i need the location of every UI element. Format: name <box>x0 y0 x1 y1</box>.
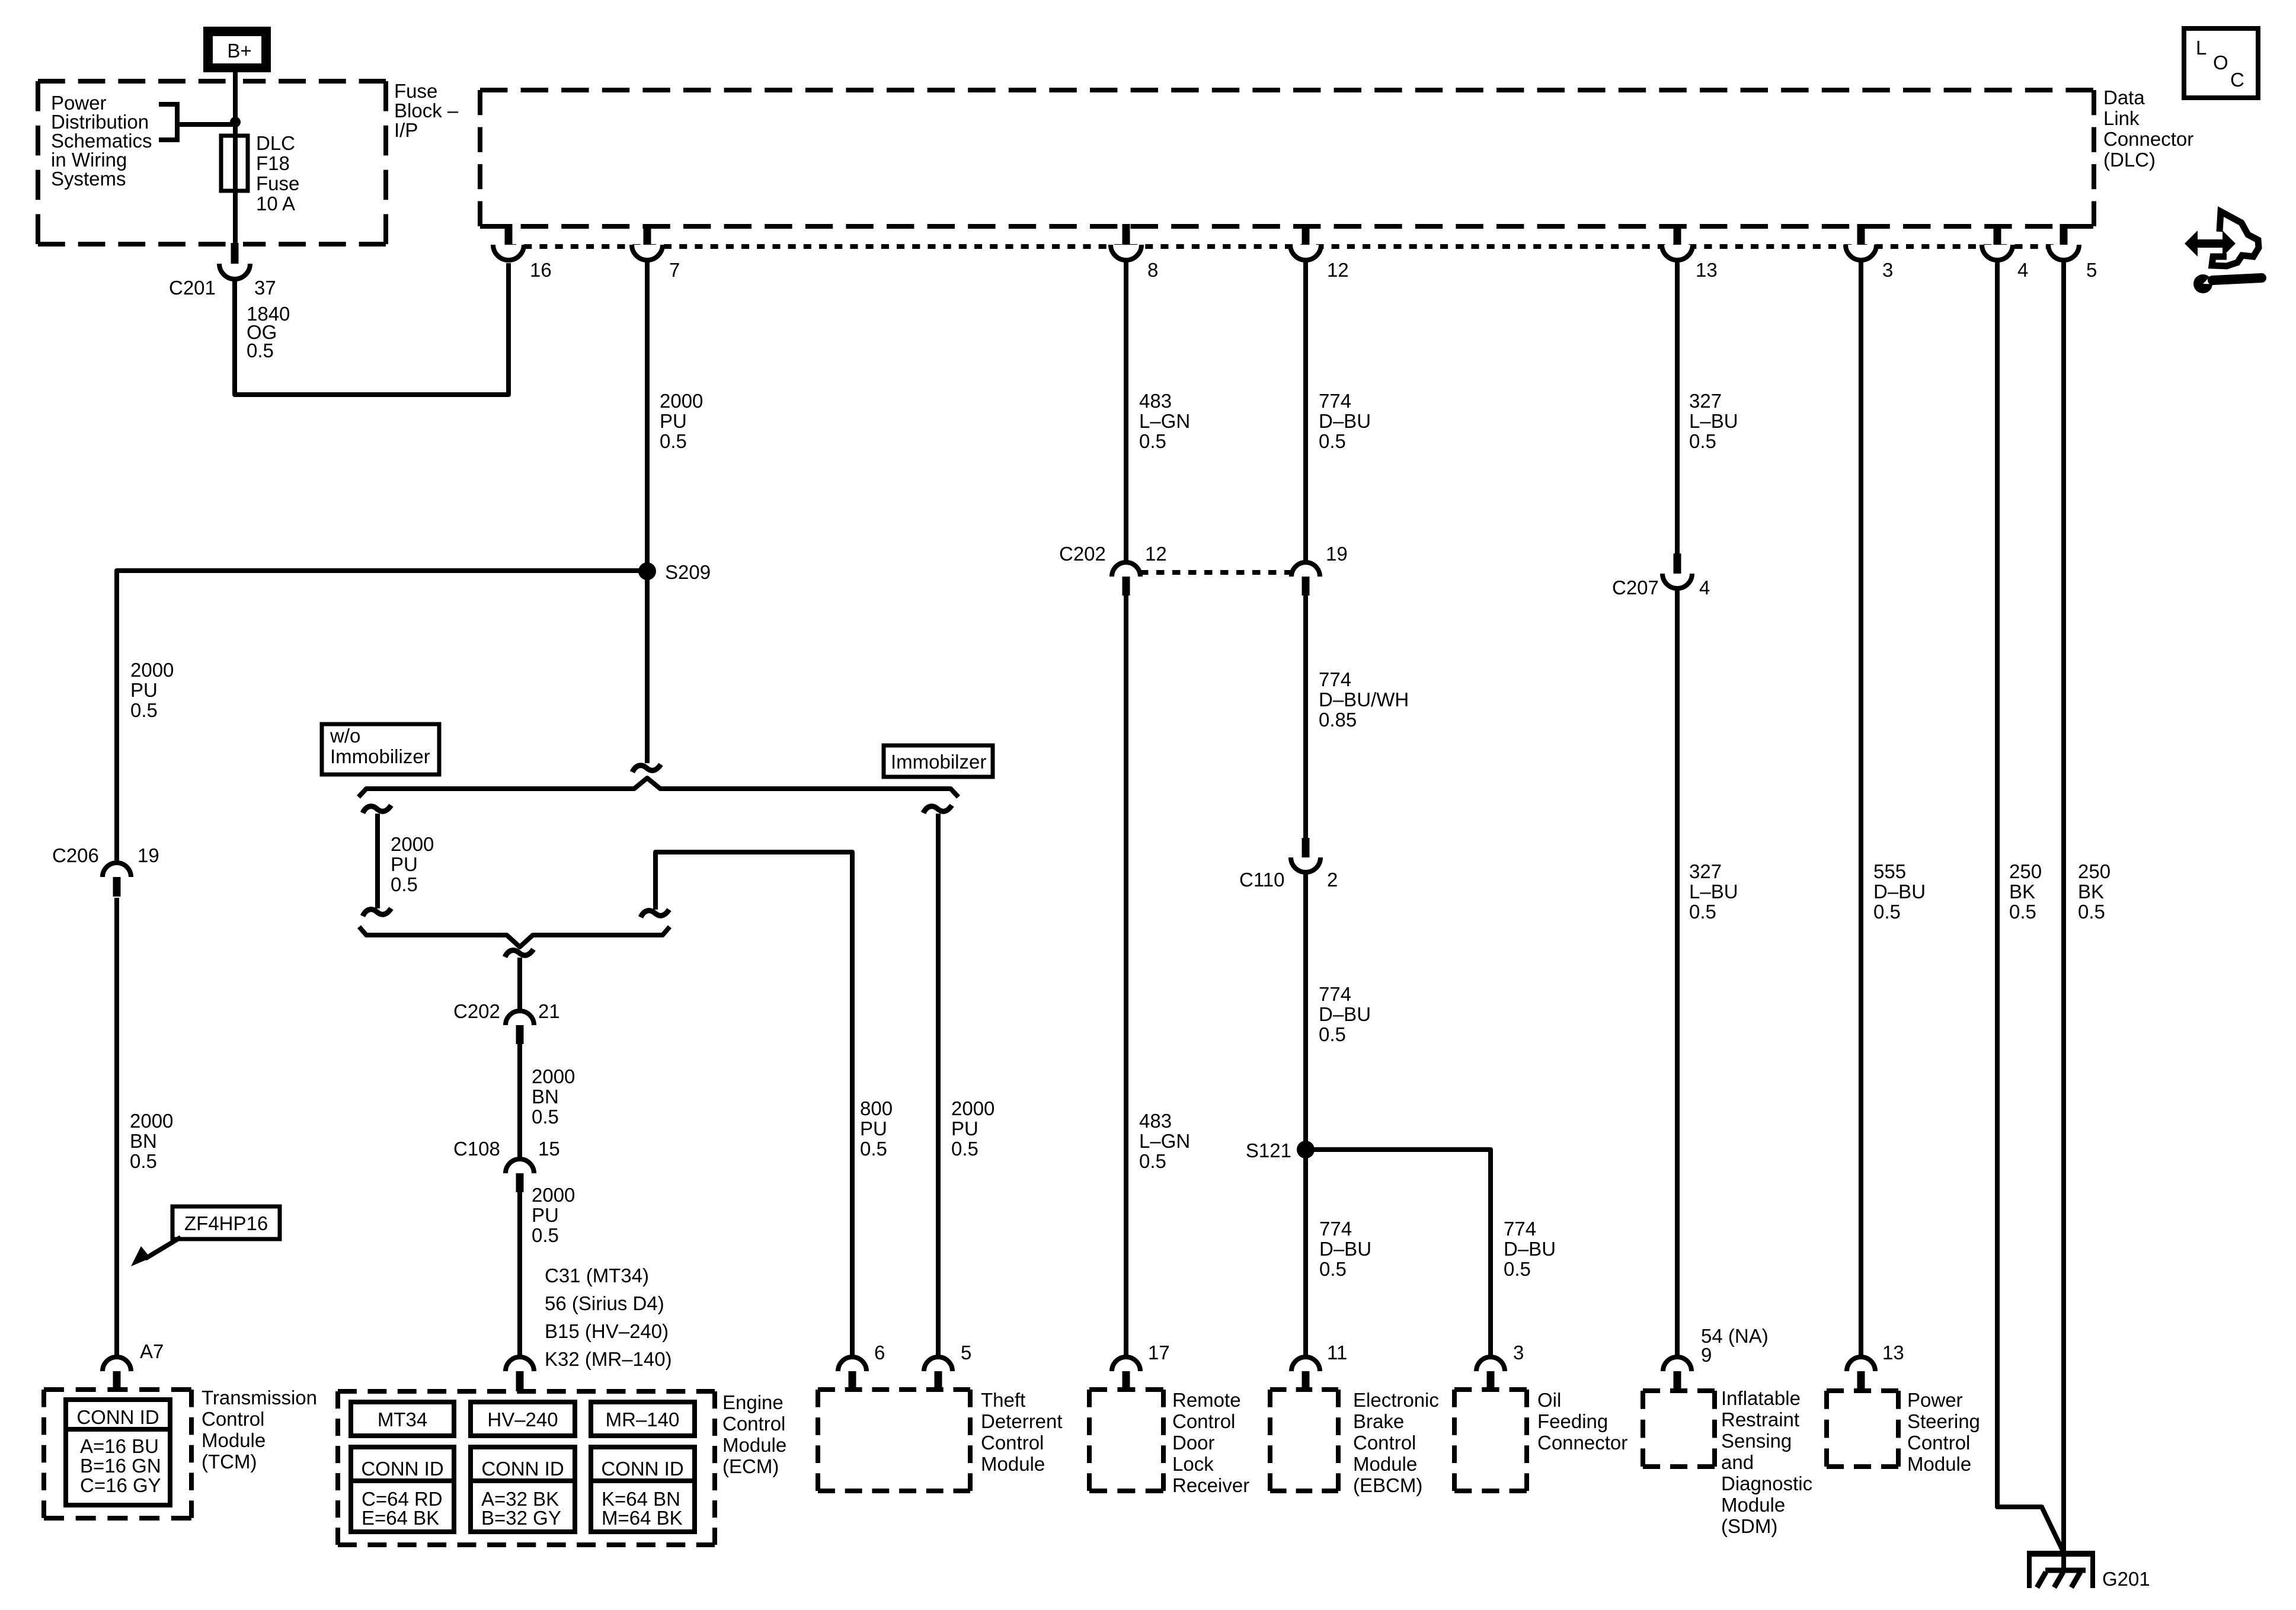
svg-text:L: L <box>2196 37 2207 59</box>
Oil Feeding Connector dashed box <box>1454 1390 1527 1491</box>
label Transmission Control Module (TCM) <box>202 1387 317 1473</box>
wire DLC pin 13 to C207 <box>1675 261 1680 555</box>
label Engine Control Module (ECM) <box>722 1391 786 1477</box>
svg-text:Fuse: Fuse <box>256 172 299 194</box>
pin number 16 <box>530 259 552 281</box>
Remote Control Door Lock Receiver dashed box <box>1089 1390 1163 1491</box>
wire DLC pin 8 to C202-12 <box>1124 261 1128 563</box>
svg-text:2000: 2000 <box>130 1110 173 1132</box>
svg-text:w/o: w/o <box>330 725 360 747</box>
connector C202 pin 21 <box>506 1011 534 1044</box>
svg-text:Diagnostic: Diagnostic <box>1721 1473 1812 1494</box>
ground G201 <box>2027 1551 2095 1588</box>
svg-text:K32 (MR–140): K32 (MR–140) <box>545 1348 672 1370</box>
svg-text:Control: Control <box>722 1413 785 1435</box>
svg-text:2000: 2000 <box>130 659 174 681</box>
wire label 250 BK 0.5 (pin 5) <box>2078 860 2110 923</box>
Inflatable Restraint SDM dashed box <box>1643 1391 1715 1467</box>
svg-text:12: 12 <box>1327 259 1349 281</box>
svg-text:0.5: 0.5 <box>130 699 158 721</box>
label box w/o Immobilizer <box>322 724 439 774</box>
svg-text:Data: Data <box>2103 87 2145 108</box>
svg-text:Restraint: Restraint <box>1721 1409 1799 1430</box>
connector C202 pin 19 <box>1291 562 1320 596</box>
wire label 774 D-BU 0.5 (upper) <box>1319 390 1371 452</box>
svg-text:11: 11 <box>1327 1342 1347 1363</box>
svg-text:6: 6 <box>874 1342 885 1363</box>
wire label 774 D-BU 0.5 (oil) <box>1504 1218 1556 1280</box>
svg-text:774: 774 <box>1319 1218 1352 1240</box>
svg-text:Transmission: Transmission <box>202 1387 317 1409</box>
break below lower brace center <box>505 949 533 957</box>
svg-text:13: 13 <box>1882 1342 1904 1363</box>
svg-text:2000: 2000 <box>532 1184 575 1206</box>
svg-text:ZF4HP16: ZF4HP16 <box>184 1212 268 1234</box>
svg-text:0.5: 0.5 <box>1319 1023 1346 1045</box>
label Power Distribution Schematics in Wiring Systems <box>51 92 152 190</box>
ECM HV-240 box <box>471 1402 575 1436</box>
DLC connector face fine-dashed row <box>509 244 2065 249</box>
ECM CONN ID table MT34 <box>351 1447 454 1532</box>
connector C201 (stub and cup) <box>219 243 250 279</box>
svg-text:BK: BK <box>2078 881 2104 902</box>
wire label 555 D-BU 0.5 <box>1873 860 1926 923</box>
label pin 13 <box>1882 1342 1904 1363</box>
svg-text:8: 8 <box>1147 259 1158 281</box>
SDM connector pin 9 <box>1663 1357 1691 1391</box>
svg-text:(TCM): (TCM) <box>202 1451 257 1473</box>
label C201 pin 37 <box>169 277 276 299</box>
svg-text:2: 2 <box>1327 869 1338 891</box>
wire label 327 L-BU 0.5 (lower) <box>1689 860 1738 923</box>
wire label 2000 PU 0.5 (jumper) <box>391 833 434 895</box>
wire DLC pin 4 to G201 <box>1997 261 2062 1550</box>
splice S209 <box>638 562 656 580</box>
svg-text:774: 774 <box>1319 983 1351 1005</box>
w/o immobilizer jumper: break, wire, break <box>363 805 391 916</box>
wire label 2000 PU 0.5 (to ECM) <box>532 1184 575 1246</box>
svg-text:D–BU: D–BU <box>1873 881 1926 902</box>
pin number 8 <box>1147 259 1158 281</box>
svg-text:Door: Door <box>1172 1432 1215 1454</box>
svg-text:PU: PU <box>860 1118 887 1140</box>
svg-text:7: 7 <box>669 259 680 281</box>
wire lower brace right end to theft deterrent pin 6 <box>655 852 852 1358</box>
wire label 774 D-BU 0.5 (EBCM) <box>1319 1218 1371 1280</box>
svg-text:10 A: 10 A <box>256 193 295 215</box>
connector C206 pin 19 <box>103 863 131 897</box>
theft deterrent connector pin 5 <box>924 1357 952 1391</box>
pin number 3 <box>1882 259 1893 281</box>
label Data Link Connector (DLC) <box>2103 87 2193 171</box>
TCM connector pin A7 <box>103 1357 131 1391</box>
wire DLC pin 3 to power steering pin 13 <box>1859 261 1863 1358</box>
label pin 17 <box>1148 1342 1170 1363</box>
Transmission Control Module dashed box <box>44 1390 191 1518</box>
label pin 19 <box>1326 543 1348 565</box>
Power Steering Control Module dashed box <box>1827 1391 1898 1467</box>
C202 bulkhead fine-dashed line <box>1140 570 1293 575</box>
ECM MT34 box <box>351 1402 454 1436</box>
pin number 7 <box>669 259 680 281</box>
svg-text:CONN ID: CONN ID <box>76 1406 159 1428</box>
data link communication icon (arrow, connector, wrench) <box>2185 212 2262 293</box>
svg-text:C: C <box>2230 69 2244 91</box>
svg-text:774: 774 <box>1504 1218 1536 1240</box>
svg-text:Power: Power <box>1907 1389 1963 1411</box>
svg-text:PU: PU <box>391 853 418 875</box>
connector C202 pin 12 <box>1112 562 1140 596</box>
svg-text:BK: BK <box>2009 881 2035 902</box>
svg-text:CONN ID: CONN ID <box>481 1458 564 1480</box>
svg-text:PU: PU <box>951 1118 978 1140</box>
svg-text:D–BU: D–BU <box>1319 1238 1371 1260</box>
wire break at option split <box>632 764 661 772</box>
label Oil Feeding Connector <box>1537 1389 1627 1454</box>
wire C206 to TCM pin A7 <box>114 898 119 1358</box>
fuse DLC F18 10A <box>221 136 248 191</box>
svg-text:C31 (MT34): C31 (MT34) <box>545 1265 649 1286</box>
svg-text:0.5: 0.5 <box>247 340 274 361</box>
svg-text:12: 12 <box>1145 543 1167 565</box>
label pin A7 <box>140 1340 164 1362</box>
option tag ZF4HP16 with arrow <box>131 1206 280 1266</box>
ECM connector <box>506 1357 534 1391</box>
svg-text:Oil: Oil <box>1537 1389 1561 1411</box>
label C110 2 <box>1239 869 1338 891</box>
DLC pin 5 terminal <box>2048 224 2079 260</box>
svg-text:0.5: 0.5 <box>391 873 418 895</box>
EBCM connector pin 11 <box>1291 1357 1320 1391</box>
svg-text:Connector: Connector <box>2103 128 2193 150</box>
label C202 12 <box>1059 543 1167 565</box>
svg-text:MR–140: MR–140 <box>606 1409 680 1430</box>
svg-text:B+: B+ <box>227 40 251 62</box>
svg-text:C202: C202 <box>1059 543 1106 565</box>
svg-text:Module: Module <box>202 1429 266 1451</box>
LOC reference icon <box>2184 28 2258 98</box>
svg-text:0.5: 0.5 <box>1689 430 1716 452</box>
svg-text:0.5: 0.5 <box>130 1150 157 1172</box>
label G201 <box>2102 1568 2150 1590</box>
svg-text:2000: 2000 <box>660 390 703 412</box>
svg-text:D–BU/WH: D–BU/WH <box>1319 689 1409 710</box>
wire immobilzer option to theft deterrent pin 5 <box>936 814 941 1358</box>
svg-text:M=64 BK: M=64 BK <box>602 1507 683 1529</box>
wire C110 to EBCM pin 11 <box>1303 870 1308 1358</box>
svg-text:S209: S209 <box>665 561 711 583</box>
pin number 12 <box>1327 259 1349 281</box>
svg-text:Steering: Steering <box>1907 1410 1980 1432</box>
svg-text:16: 16 <box>530 259 552 281</box>
svg-text:Block –: Block – <box>394 100 459 121</box>
DLC pin 13 terminal <box>1662 224 1693 260</box>
svg-text:Sensing: Sensing <box>1721 1430 1792 1452</box>
label Power Steering Control Module <box>1907 1389 1980 1475</box>
svg-text:Lock: Lock <box>1172 1453 1214 1475</box>
wire C202-21 to C108 <box>517 1044 522 1159</box>
svg-text:Inflatable: Inflatable <box>1721 1387 1801 1409</box>
svg-text:CONN ID: CONN ID <box>601 1458 683 1480</box>
svg-text:Electronic: Electronic <box>1353 1389 1439 1411</box>
svg-text:2000: 2000 <box>532 1065 575 1087</box>
svg-text:483: 483 <box>1139 390 1172 412</box>
svg-text:15: 15 <box>538 1138 560 1160</box>
svg-text:Module: Module <box>1353 1453 1417 1475</box>
svg-text:PU: PU <box>130 679 158 701</box>
svg-text:0.5: 0.5 <box>1873 901 1901 923</box>
svg-text:HV–240: HV–240 <box>487 1409 558 1430</box>
svg-text:C110: C110 <box>1239 869 1284 891</box>
wire label 327 L-BU 0.5 (upper) <box>1689 390 1738 452</box>
wire label 483 L-GN 0.5 (lower) <box>1139 1110 1190 1172</box>
svg-text:483: 483 <box>1139 1110 1172 1132</box>
Data Link Connector (DLC) dashed box <box>480 90 2094 226</box>
wire label 250 BK 0.5 (pin 4) <box>2009 860 2042 923</box>
svg-text:D–BU: D–BU <box>1319 1003 1371 1025</box>
gap in box edge for B+ wire <box>228 77 243 248</box>
svg-text:21: 21 <box>538 1000 560 1022</box>
svg-text:B15 (HV–240): B15 (HV–240) <box>545 1320 669 1342</box>
svg-text:3: 3 <box>1513 1342 1524 1363</box>
wire label 2000 PU 0.5 (pin 7) <box>660 390 703 452</box>
svg-text:B=32 GY: B=32 GY <box>481 1507 561 1529</box>
svg-text:Immobilizer: Immobilizer <box>330 745 430 767</box>
svg-text:0.5: 0.5 <box>1689 901 1716 923</box>
svg-text:A7: A7 <box>140 1340 164 1362</box>
remote door lock receiver connector pin 17 <box>1112 1357 1140 1391</box>
label Theft Deterrent Control Module <box>981 1389 1063 1475</box>
wire C201 to DLC pin 16 <box>235 263 509 395</box>
wire DLC pin 12 to C202-19 <box>1303 261 1308 563</box>
svg-text:A=16 BU: A=16 BU <box>80 1435 159 1457</box>
svg-text:Control: Control <box>1353 1432 1416 1454</box>
svg-text:2000: 2000 <box>391 833 434 855</box>
svg-text:19: 19 <box>1326 543 1348 565</box>
DLC pin 16 terminal <box>493 224 524 260</box>
Electronic Brake Control Module dashed box <box>1270 1390 1338 1491</box>
svg-text:4: 4 <box>1699 577 1710 598</box>
wire label 774 D-BU/WH 0.85 <box>1319 668 1409 731</box>
svg-text:O: O <box>2213 52 2228 73</box>
svg-text:DLC: DLC <box>256 132 295 154</box>
label Fuse Block - I/P <box>394 80 459 141</box>
label pin 54 (NA) / 9 <box>1701 1325 1769 1366</box>
splice S121 <box>1297 1141 1315 1158</box>
svg-text:0.5: 0.5 <box>2009 901 2036 923</box>
wire B+ down through fuse to C201 <box>233 72 238 244</box>
label C207 4 <box>1612 577 1710 598</box>
svg-text:G201: G201 <box>2102 1568 2150 1590</box>
label S121 <box>1246 1140 1291 1161</box>
svg-text:Feeding: Feeding <box>1537 1410 1608 1432</box>
wire label 774 D-BU 0.5 (mid) <box>1319 983 1371 1045</box>
wire S209 to left riser <box>117 571 647 860</box>
svg-text:56 (Sirius D4): 56 (Sirius D4) <box>545 1292 664 1314</box>
wire C202-12 to remote receiver pin 17 <box>1124 596 1128 1358</box>
wire DLC pin 5 to G201 <box>2061 261 2066 1569</box>
label C202 21 <box>453 1000 560 1022</box>
label fuse DLC F18 Fuse 10 A <box>256 132 299 215</box>
svg-text:(EBCM): (EBCM) <box>1353 1474 1422 1496</box>
DLC pin 4 terminal <box>1982 224 2013 260</box>
label S209 <box>665 561 711 583</box>
label C108 15 <box>453 1138 560 1160</box>
svg-text:0.5: 0.5 <box>1319 430 1346 452</box>
svg-text:BN: BN <box>532 1086 559 1108</box>
option brace upper (w/o Immobilizer vs Immobilzer) <box>359 778 958 797</box>
svg-text:Theft: Theft <box>981 1389 1025 1411</box>
wire DLC pin 7 to S209 <box>645 261 650 571</box>
wire label 2000 PU 0.5 (left branch) <box>130 659 174 721</box>
svg-text:Engine: Engine <box>722 1391 784 1413</box>
svg-text:(SDM): (SDM) <box>1721 1515 1777 1537</box>
svg-text:MT34: MT34 <box>378 1409 427 1430</box>
svg-text:(DLC): (DLC) <box>2103 149 2156 171</box>
wire label 1840 OG 0.5 <box>247 303 290 361</box>
svg-text:C207: C207 <box>1612 577 1659 598</box>
svg-text:Connector: Connector <box>1537 1432 1627 1454</box>
svg-text:C108: C108 <box>453 1138 500 1160</box>
label C206 19 <box>52 844 159 866</box>
svg-text:BN: BN <box>130 1130 157 1152</box>
svg-text:0.5: 0.5 <box>951 1138 978 1160</box>
svg-text:0.5: 0.5 <box>860 1138 887 1160</box>
svg-text:Deterrent: Deterrent <box>981 1410 1063 1432</box>
svg-text:17: 17 <box>1148 1342 1170 1363</box>
wire S121 to oil feeding connector pin 3 <box>1306 1150 1491 1358</box>
svg-text:Fuse: Fuse <box>394 80 437 102</box>
svg-text:I/P: I/P <box>394 119 418 141</box>
svg-text:Receiver: Receiver <box>1172 1474 1249 1496</box>
svg-text:13: 13 <box>1696 259 1718 281</box>
svg-text:0.5: 0.5 <box>1504 1258 1531 1280</box>
svg-text:C206: C206 <box>52 844 99 866</box>
svg-text:PU: PU <box>660 410 687 432</box>
svg-text:C202: C202 <box>453 1000 500 1022</box>
connector C207 pin 4 <box>1662 553 1692 588</box>
break below upper brace right end <box>923 805 952 813</box>
wire label 2000 PU 0.5 (immobilzer) <box>951 1097 994 1160</box>
svg-text:800: 800 <box>860 1097 893 1119</box>
svg-text:0.5: 0.5 <box>532 1106 559 1128</box>
Theft Deterrent Control Module dashed box <box>818 1390 970 1491</box>
ECM pin list C31/56/B15/K32 <box>545 1265 672 1370</box>
svg-text:0.85: 0.85 <box>1319 709 1357 731</box>
svg-text:4: 4 <box>2017 259 2028 281</box>
svg-text:E=64 BK: E=64 BK <box>362 1507 439 1529</box>
svg-text:3: 3 <box>1882 259 1893 281</box>
svg-text:Remote: Remote <box>1172 1389 1241 1411</box>
svg-text:Immobilzer: Immobilzer <box>891 751 986 773</box>
svg-text:Brake: Brake <box>1353 1410 1404 1432</box>
svg-text:327: 327 <box>1689 860 1722 882</box>
svg-text:L–GN: L–GN <box>1139 410 1190 432</box>
power steering control module connector pin 13 <box>1847 1357 1875 1391</box>
oil feeding connector pin 3 <box>1476 1357 1505 1391</box>
label pin 5 <box>961 1342 971 1363</box>
svg-text:Module: Module <box>1907 1453 1971 1475</box>
svg-text:Link: Link <box>2103 107 2140 129</box>
svg-text:Control: Control <box>202 1408 264 1430</box>
bracket linking note to wire <box>159 102 235 142</box>
DLC pin 3 terminal <box>1846 224 1876 260</box>
svg-text:Control: Control <box>981 1432 1044 1454</box>
svg-text:19: 19 <box>137 844 159 866</box>
svg-text:(ECM): (ECM) <box>722 1455 779 1477</box>
pin number 4 <box>2017 259 2028 281</box>
label pin 6 <box>874 1342 885 1363</box>
svg-text:L–BU: L–BU <box>1689 410 1738 432</box>
label box Immobilzer <box>884 745 993 777</box>
wire label 800 PU 0.5 <box>860 1097 893 1160</box>
svg-text:Control: Control <box>1172 1410 1235 1432</box>
battery feed symbol B+ <box>203 27 271 72</box>
pin number 13 <box>1696 259 1718 281</box>
wire label 2000 BN 0.5 (to C108) <box>532 1065 575 1128</box>
connector C108 pin 15 <box>506 1159 534 1192</box>
svg-text:9: 9 <box>1701 1344 1712 1366</box>
fuse block I/P dashed box <box>38 81 386 244</box>
svg-text:0.5: 0.5 <box>1139 1150 1166 1172</box>
Engine Control Module dashed box <box>338 1391 715 1545</box>
svg-text:327: 327 <box>1689 390 1722 412</box>
wire C202-19 to C110 <box>1303 596 1308 839</box>
wire label 483 L-GN 0.5 (upper) <box>1139 390 1190 452</box>
svg-text:2000: 2000 <box>951 1097 994 1119</box>
junction node on B+ feed <box>230 117 241 127</box>
wire lower brace center to C202-21 <box>517 958 522 1012</box>
label Remote Control Door Lock Receiver <box>1172 1389 1249 1496</box>
svg-text:Module: Module <box>1721 1494 1785 1516</box>
svg-text:555: 555 <box>1873 860 1906 882</box>
label Electronic Brake Control Module (EBCM) <box>1353 1389 1439 1496</box>
svg-text:S121: S121 <box>1246 1140 1291 1161</box>
svg-text:0.5: 0.5 <box>660 430 687 452</box>
svg-text:L–GN: L–GN <box>1139 1130 1190 1152</box>
svg-text:37: 37 <box>254 277 276 299</box>
svg-text:5: 5 <box>2086 259 2097 281</box>
svg-text:250: 250 <box>2078 860 2110 882</box>
wire S209 down to option split <box>645 571 650 763</box>
svg-text:C=16 GY: C=16 GY <box>80 1474 161 1496</box>
DLC pin 7 terminal <box>632 224 663 260</box>
svg-text:Systems: Systems <box>51 168 126 190</box>
label pin 11 <box>1327 1342 1347 1363</box>
svg-text:0.5: 0.5 <box>1139 430 1166 452</box>
svg-text:PU: PU <box>532 1204 559 1226</box>
break at lower brace right end <box>641 910 669 917</box>
svg-text:Module: Module <box>981 1453 1045 1475</box>
svg-text:CONN ID: CONN ID <box>361 1458 443 1480</box>
svg-text:5: 5 <box>961 1342 971 1363</box>
svg-text:D–BU: D–BU <box>1319 410 1371 432</box>
wire label 2000 BN 0.5 (to TCM) <box>130 1110 173 1172</box>
svg-text:C201: C201 <box>169 277 216 299</box>
option brace lower <box>359 927 670 947</box>
svg-text:0.5: 0.5 <box>1319 1258 1347 1280</box>
label Inflatable Restraint Sensing and Diagnostic Module (SDM) <box>1721 1387 1812 1537</box>
DLC pin 8 terminal <box>1111 224 1141 260</box>
svg-text:0.5: 0.5 <box>2078 901 2105 923</box>
svg-text:250: 250 <box>2009 860 2042 882</box>
DLC pin 12 terminal <box>1290 224 1321 260</box>
wire C108 to ECM <box>517 1192 522 1358</box>
svg-text:D–BU: D–BU <box>1504 1238 1556 1260</box>
svg-text:774: 774 <box>1319 668 1351 690</box>
theft deterrent connector pin 6 <box>838 1357 866 1391</box>
svg-text:F18: F18 <box>256 152 290 174</box>
